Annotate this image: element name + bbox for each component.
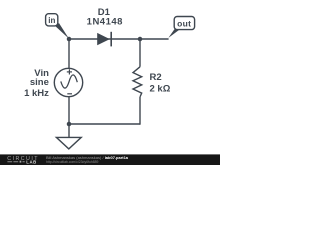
V1 plus sign: [67, 69, 72, 74]
svg-text:LAB: LAB: [26, 159, 36, 164]
wire ground stem: [68, 124, 70, 137]
voltage source V1 circle: [54, 68, 82, 96]
flag out: [168, 17, 194, 38]
node in junction: [67, 37, 72, 42]
diode D1: [97, 32, 111, 47]
footer bar: [0, 154, 220, 165]
V1 minus sign: [67, 93, 72, 95]
footer CircuitLab logo: [7, 156, 39, 165]
ground symbol: [56, 137, 81, 149]
svg-text:sine: sine: [30, 77, 49, 88]
wire left vertical (node in down to Vin top): [68, 39, 70, 68]
resistor R2: [133, 67, 142, 97]
svg-text:1N4148: 1N4148: [87, 17, 123, 28]
node ground junction: [67, 122, 72, 127]
svg-text:http://circuitlab.com/c/23dy6f: http://circuitlab.com/c/23dy6fuh889: [46, 160, 99, 164]
wire top horizontal (node in to out tail): [69, 38, 169, 40]
svg-text:R2: R2: [150, 72, 162, 83]
wire bottom horizontal: [69, 123, 140, 125]
node out junction: [138, 37, 143, 42]
svg-text:in: in: [48, 16, 55, 25]
svg-text:1 kHz: 1 kHz: [24, 88, 49, 99]
wire Vin bottom to ground node: [68, 97, 70, 124]
flag in: [46, 14, 69, 39]
V1 sine wave symbol: [61, 75, 78, 88]
wire right vertical top (node to R2): [139, 39, 141, 67]
svg-text:out: out: [177, 18, 191, 28]
svg-text:2 kΩ: 2 kΩ: [150, 84, 171, 95]
wire right vertical bottom (R2 to bottom wire): [139, 97, 141, 125]
